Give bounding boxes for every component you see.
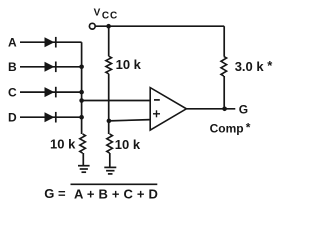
op-amp non-inverting pin mark [153,110,160,117]
junction Vcc rail [106,24,111,29]
svg-text:D: D [8,110,17,124]
svg-text:CC: CC [102,11,118,22]
Vcc label [94,8,119,22]
wire divider upper [108,26,110,56]
wire inverting input [82,100,151,102]
wire non-inverting input [109,120,150,121]
ground right [104,167,116,174]
junction divider node to non-inverting input [107,119,112,124]
wire R3 to ground [109,153,111,167]
diode D1 (input A) [45,37,56,48]
svg-text:A + B + C + D: A + B + C + D [74,186,158,201]
wire A input [20,41,82,43]
svg-text:A: A [8,35,17,49]
svg-text:3.0 k: 3.0 k [235,59,265,74]
wire Vcc top rail [95,25,224,27]
junction bus-C [79,90,84,95]
svg-text:10 k: 10 k [50,136,76,151]
junction bus-B [79,65,84,70]
diode D4 (input D) [45,112,56,123]
wire op-amp output [186,108,235,110]
svg-text:10 k: 10 k [116,57,142,72]
svg-text:G =: G = [44,186,66,201]
ground left [78,166,90,173]
wire R4 to output node [223,76,225,109]
resistor R4 value label 3.0 k* [235,58,274,74]
diode D3 (input C) [45,87,56,98]
svg-text:V: V [94,8,101,19]
op-amp U1 comparator [150,88,186,131]
resistor R3 10k divider lower [107,134,113,153]
wire C input [20,91,82,93]
svg-text:B: B [8,60,17,74]
wire divider lower [108,74,110,134]
wire B input [20,66,82,68]
equation G = NOT(A+B+C+D) [44,184,158,201]
svg-text:10 k: 10 k [115,137,141,152]
svg-text:G: G [239,103,248,117]
wire output pull-up vertical [223,26,225,56]
wire diode-bus vertical [81,42,83,134]
resistor R1 10k pull-up [106,56,112,74]
junction bus to inverting wire [79,98,84,103]
resistor R2 10k pull-down (bus) [80,134,86,153]
diode D2 (input B) [45,62,56,73]
svg-text:Comp: Comp [210,122,244,136]
wire D input [20,116,82,118]
junction bus-D [79,115,84,120]
Vcc terminal circle [89,23,95,29]
wire R2 to ground [82,153,84,165]
resistor R4 3.0k pull-up [221,56,227,76]
junction output node G [222,107,227,112]
svg-text:C: C [8,85,17,99]
op-amp inverting pin mark [154,99,160,101]
svg-text:*: * [246,121,251,135]
